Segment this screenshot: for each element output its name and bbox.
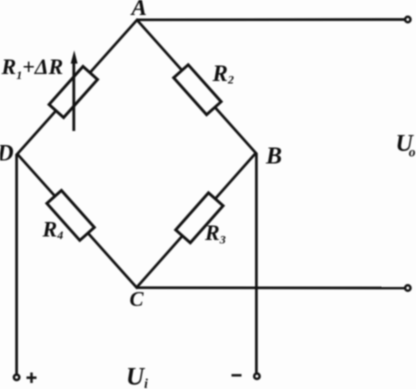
svg-text:C: C bbox=[130, 287, 145, 311]
svg-text:D: D bbox=[0, 141, 14, 166]
svg-text:A: A bbox=[130, 0, 147, 20]
svg-text:o: o bbox=[409, 144, 416, 159]
svg-text:B: B bbox=[265, 144, 282, 170]
svg-text:R1+ΔR: R1+ΔR bbox=[1, 54, 64, 82]
